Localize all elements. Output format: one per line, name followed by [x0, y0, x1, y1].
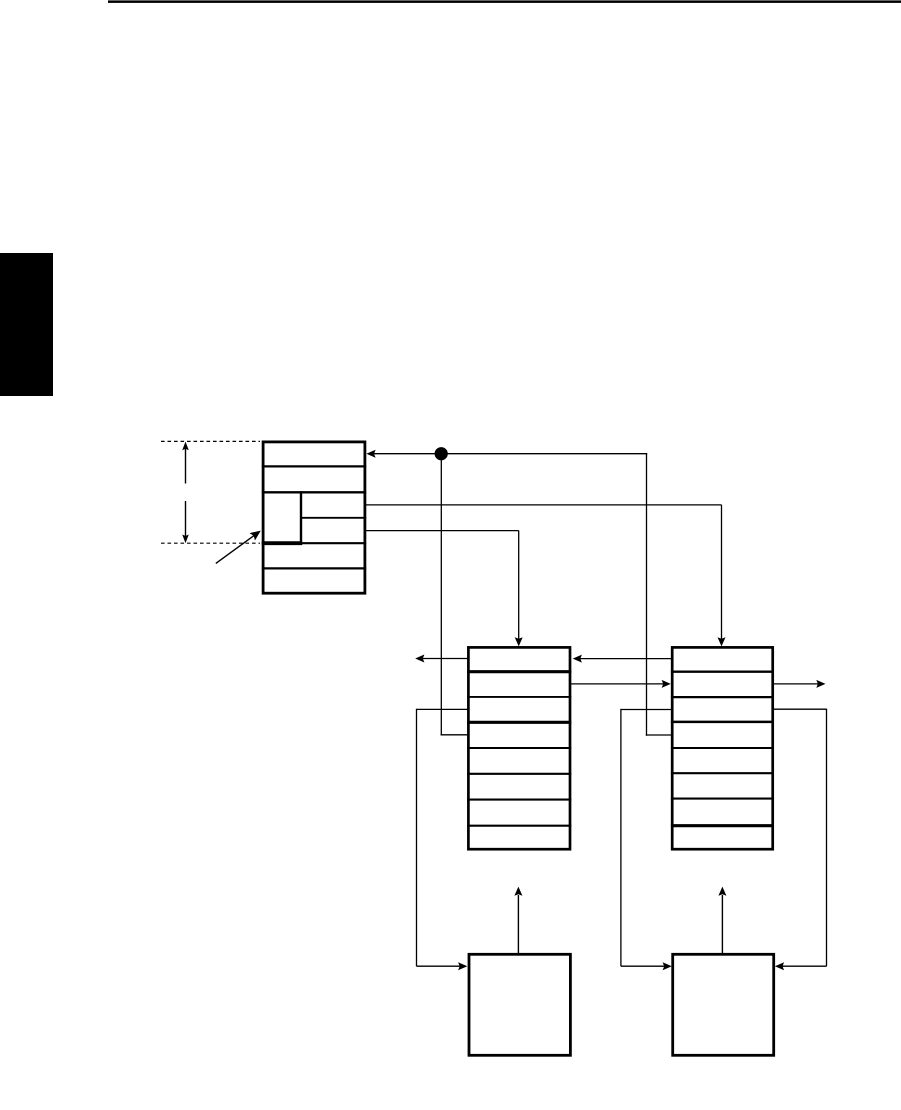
left queue divider 5 — [467, 773, 571, 775]
left queue divider 2 — [467, 696, 571, 698]
wire: net A horizontal into control block row1 — [371, 453, 647, 455]
wire: right queue row2 arrow off to right — [773, 683, 819, 685]
wire: right queue row3 loop to right process box right side — [773, 708, 827, 710]
right queue divider 6 — [671, 798, 774, 800]
dimension arrow up — [185, 449, 187, 484]
left process box — [469, 954, 570, 1055]
left queue outline — [468, 647, 570, 849]
wire: into left queue row4 — [441, 734, 468, 736]
control block divider 2 — [262, 491, 366, 493]
right queue divider 2 — [671, 696, 774, 698]
wire: into right queue row4 — [646, 734, 672, 736]
junction dot — [435, 447, 448, 460]
wire: left queue row3 loop to left process box — [417, 708, 469, 710]
arrowhead into control block row1 — [366, 450, 375, 458]
arrowhead into right process box right edge — [775, 962, 784, 970]
right queue divider 5 — [671, 772, 774, 774]
left queue divider 1 (thick) — [467, 670, 571, 673]
left margin tab — [0, 253, 53, 396]
right process box — [673, 954, 774, 1055]
wire: control block ptr1 to right queue top — [365, 504, 722, 506]
control block sub divider — [300, 517, 366, 519]
up arrow from left process box — [517, 895, 519, 953]
callout diagonal arrow — [216, 535, 255, 563]
wire: left queue row2 forward pointer to right queue — [570, 683, 665, 685]
control block divider 3 — [262, 542, 366, 544]
left queue divider 7 — [467, 825, 571, 827]
left queue divider 6 — [467, 799, 571, 801]
control block divider 1 — [262, 465, 366, 467]
left queue divider 4 — [467, 747, 571, 749]
wire: junction drop to left queue row4 — [440, 454, 442, 736]
right queue divider 3 — [671, 721, 774, 724]
control block divider 4 — [262, 567, 366, 569]
dashed guide top — [161, 440, 260, 442]
wire: right queue row1 back-pointer into left queue — [579, 658, 673, 660]
wire: left queue row1 arrow off to left — [422, 658, 468, 660]
up arrow from right process box — [721, 895, 723, 953]
wire: branch to right process box left side — [621, 709, 672, 711]
arrowhead into left process box — [458, 962, 467, 970]
right queue divider 1 — [671, 671, 774, 673]
dashed guide bottom — [161, 542, 260, 544]
wire: control block ptr2 to left queue top — [365, 530, 519, 532]
wire: net A vertical to right queue row4 — [646, 453, 648, 736]
left queue divider 3 (thick) — [467, 721, 571, 724]
arrowhead down into right queue top — [718, 637, 726, 646]
arrowhead into right process box left edge — [663, 962, 672, 970]
right queue divider 7 (thick) — [671, 824, 774, 827]
control block inner vertical — [300, 491, 302, 544]
right queue outline — [672, 647, 773, 849]
control block heavy cell bottom — [262, 541, 303, 545]
right queue divider 4 — [671, 747, 774, 749]
control block outline — [263, 442, 365, 593]
dimension arrow down — [185, 501, 187, 536]
arrowhead down into left queue top — [515, 637, 523, 646]
header rule — [108, 0, 901, 3]
